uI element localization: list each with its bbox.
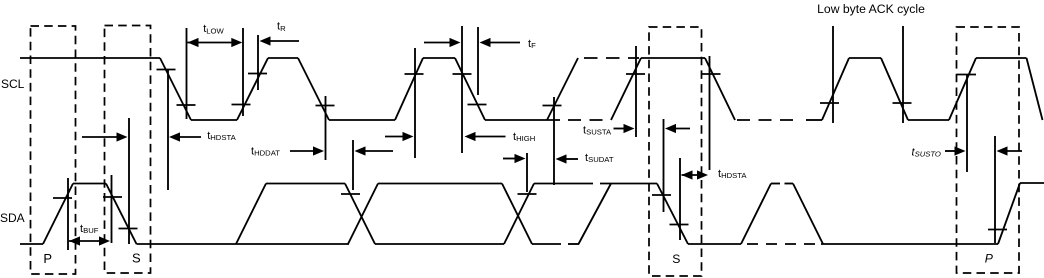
svg-text:S: S [672,252,680,266]
wire: SDA dashed low rail under ACK [747,243,818,245]
arrow: tF right pointer [488,42,520,44]
wire: SDA high rail 3a [534,183,593,185]
tick: SCL fall 3 lower [468,104,487,106]
tick: SCL rise 1 upper [248,73,267,75]
boundary: tSUSTO right / SDA rise [994,136,996,243]
dashed box: STOP condition P (left) [31,26,76,274]
svg-text:tF: tF [528,38,536,50]
boundary: tHDSTA left / SDA fall at S [128,118,130,244]
wire: SDA low rail 1 [137,243,350,245]
wire: SCL high through repeated start box [641,57,705,59]
boundary: tLOW left [186,28,188,119]
svg-text:Low byte ACK cycle: Low byte ACK cycle [817,2,925,16]
wire: SDA low after repeated start [688,243,741,245]
wire: SDA falling edge at start S [106,184,137,245]
arrow: tHIGH right pointer [473,136,505,138]
tick: SDA fall upper (S left) [103,196,122,198]
boundary: tHIGH right / tF left [461,26,463,153]
svg-text:tSUSTA: tSUSTA [583,125,612,137]
tick: SDA crossover 1 upper [341,193,360,195]
wire: SDA high between P and S [73,183,106,185]
tick: SCL fall 1 lower [177,104,196,106]
wire: SCL rising edge 1 [237,58,268,120]
svg-text:tR: tR [277,21,286,33]
wire: SDA data rising branch [236,184,266,245]
arrow: tSUDAT left pointer [503,158,517,160]
boundary: tSUSTO left / SCL rise [966,74,968,172]
tick: SCL late rise 4 upper [626,73,645,75]
wire: SCL falling edge 2 [298,58,329,120]
arrow: tHIGH left pointer [385,136,405,138]
wire: SDA crossover 1 rising edge [348,184,378,245]
wire: SCL high pulse 3 [423,57,455,59]
wire: SCL initial high [20,57,160,59]
arrow: tHDSTA right pointer (first S) [178,136,201,138]
svg-text:SCL: SCL [1,77,25,91]
tick: SCL ACK rise lower [820,102,839,104]
wire: SDA rising edge at stop P [998,183,1020,244]
boundary: tF right [477,27,479,95]
boundary: tSUDAT right / SCL rise [553,97,555,185]
boundary: tSUDAT left / SDA transition [526,153,528,192]
wire: SCL high at stop [976,57,1027,59]
tick: SCL fall 3 upper [453,73,472,75]
dashed box: STOP condition P (right) [957,27,1020,273]
arrow: tSUSTO left pointer [945,150,957,152]
tick: SCL rise 1 lower [232,104,251,106]
arrow: tSUSTA right pointer [674,128,690,130]
svg-text:P: P [43,251,52,266]
boundary: tR right [257,35,259,90]
dashed box: START condition S (left) [105,26,151,274]
wire: SDA low before stop P [821,243,998,245]
wire: SCL ACK falling edge [881,58,908,120]
tick: SDA rise lower (P right) [988,229,1007,231]
tick: SCL fall 1 upper [157,69,176,71]
tick: SCL rise 2 upper [405,73,424,75]
svg-text:SDA: SDA [0,211,25,225]
arrow: tF left pointer [424,42,452,44]
wire: SDA low rail 3 dash [568,243,579,245]
wire: SCL low 1 [191,119,237,121]
wire: SCL dashed low after repeated start [737,119,800,121]
boundary: tHDSTA2 left / SDA fall [679,158,681,240]
arrow: tHDDAT left pointer [290,150,315,152]
wire: SCL late rising edge 4 [611,58,641,120]
wire: SDA ACK rising edge [741,184,771,245]
wire: SDA low rail 2 [375,243,504,245]
tick: SCL fall 2 lower [316,105,335,107]
boundary: tHIGH left [414,48,416,158]
arrow: tHDSTA left pointer (first S) [82,136,119,138]
wire: SCL early rising edge 3 [547,58,578,120]
boundary: tBUF left [67,178,69,250]
wire: SCL rising edge 2 [395,58,423,120]
wire: SDA crossover 1 falling edge [345,184,375,245]
tick: SDA fall lower (repeated S) [670,224,689,226]
wire: SCL final falling edge [1027,58,1043,120]
tick: SCL early rise 3 lower [543,105,562,107]
arrow: tLOW span [188,42,234,44]
wire: SDA low rail 3 solid [532,243,561,245]
boundary: tSUSTA left / SCL rise [635,46,637,137]
boundary: tHDSTA2 right / SCL fall [709,56,711,170]
wire: SDA high rail 1 [266,183,345,185]
wire: SCL ACK rising edge [822,58,849,120]
wire: SDA rising edge before repeated start [579,184,612,245]
svg-text:S: S [132,251,141,266]
wire: SDA ACK falling edge [793,184,823,245]
wire: SCL ACK high [849,57,881,59]
svg-text:tSUDAT: tSUDAT [585,152,614,164]
wire: SCL low 3 solid part [485,119,560,121]
boundary: tBUF right [111,175,113,243]
tick: SDA rise upper (P left) [53,197,72,199]
svg-text:tHDDAT: tHDDAT [251,146,280,158]
wire: SDA high at right edge [1020,182,1044,184]
boundary: tHDDAT left / SCL fall 2 [325,96,327,160]
wire: SCL low 3 dashed part [568,119,603,121]
boundary: tLOW right / tR left [242,28,244,116]
wire: SDA high rail 3b [600,183,657,185]
boundary: ACK cycle left marker [832,26,834,123]
wire: SCL falling edge 3 [455,58,485,120]
boundary: tSUSTA right / SDA fall [663,119,665,212]
tick: SDA fall lower (S left) [119,228,138,230]
svg-text:tBUF: tBUF [80,223,99,235]
wire: SCL high pulse 2 [268,57,298,59]
dashed box: repeated START condition S [649,27,702,276]
tick: SCL ACK fall lower [893,102,912,104]
boundary: tHDSTA right / SCL fall 1 [167,69,169,190]
arrow: tSUSTA left pointer [614,128,626,130]
wire: SCL rising edge at stop [949,58,976,120]
arrow: tSUDAT right pointer [564,158,578,160]
svg-text:P: P [985,252,994,266]
wire: SDA initial low [20,243,43,245]
arrow: tHDSTA2 span [682,174,700,176]
svg-text:tHDSTA: tHDSTA [207,130,236,142]
svg-text:tHIGH: tHIGH [513,131,535,143]
tick: SDA fall upper (repeated S) [652,194,671,196]
arrow: tR pointer [268,40,299,42]
svg-text:tHDSTA: tHDSTA [718,168,747,180]
wire: SCL low 2 [329,119,395,121]
boundary: tHDDAT right / SDA transition [352,140,354,190]
arrow: tBUF span [69,240,101,242]
tick: SCL stop rise upper [957,74,976,76]
tick: SDA crossover 2 upper [518,193,537,195]
wire: SDA ACK high b [785,183,794,185]
arrow: tHDDAT right pointer [363,150,393,152]
wire: SDA crossover 2 falling edge [502,184,532,245]
wire: SDA crossover 2 rising edge [504,184,534,245]
wire: SDA high rail 2 [378,183,502,185]
arrow: tSUSTO right pointer [1005,150,1022,152]
wire: SCL low before stop [908,119,949,121]
wire: SDA rising edge before stop P [43,184,73,245]
wire: SCL falling edge 1 [160,58,191,120]
svg-text:tSUSTO: tSUSTO [912,147,941,159]
wire: SDA ACK high a [771,183,780,185]
svg-text:tLOW: tLOW [203,23,224,35]
wire: SDA falling edge at repeated start S [657,184,688,245]
tick: SCL fall 4 upper [702,73,721,75]
boundary: ACK cycle right marker [902,26,904,123]
wire: SCL dashed high before repeated start [584,57,639,59]
wire: SCL falling edge 4 [705,58,735,120]
wire: SCL low solid before ACK clock [806,119,822,121]
